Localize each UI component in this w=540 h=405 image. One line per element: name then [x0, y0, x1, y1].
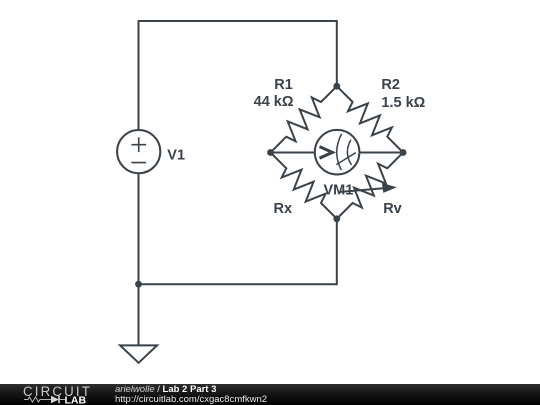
resistor R1 [271, 86, 337, 152]
svg-text:VM1: VM1 [324, 182, 354, 198]
wire: bridge horizontal left node to right node [271, 152, 404, 154]
svg-text:LAB: LAB [65, 395, 87, 405]
svg-text:Rv: Rv [383, 201, 402, 217]
node: bridge right junction [400, 149, 407, 156]
svg-text:Rx: Rx [274, 201, 293, 217]
node: ground junction [135, 281, 142, 288]
wire: bottom horizontal [139, 283, 337, 285]
node: bridge top junction [333, 83, 340, 90]
resistor R2 [337, 86, 403, 152]
voltmeter U1 (VM1) [315, 130, 360, 175]
node: bridge left junction [267, 149, 274, 156]
footer bar [0, 384, 540, 405]
svg-text:1.5 kΩ: 1.5 kΩ [381, 95, 425, 111]
wire: V1 bottom to ground node [138, 173, 140, 284]
resistor Rx [271, 153, 337, 219]
wire: down to bridge top node [336, 21, 338, 86]
footer title text [115, 385, 216, 395]
svg-text:R1: R1 [274, 77, 293, 93]
ground [120, 345, 157, 362]
wire: V1 top to top-left corner [138, 21, 140, 130]
node: bridge bottom junction [333, 215, 340, 222]
wire: top horizontal [139, 20, 337, 22]
wire: up to bridge bottom node [336, 219, 338, 284]
voltage source V1 [117, 130, 160, 173]
wire: ground stem [138, 284, 140, 345]
svg-text:R2: R2 [381, 77, 400, 93]
svg-text:44 kΩ: 44 kΩ [254, 94, 294, 110]
CircuitLab logo [0, 384, 110, 405]
resistor Rv [337, 153, 403, 219]
footer url text [115, 395, 267, 405]
wiper arrow of Rv [340, 183, 397, 193]
svg-text:V1: V1 [167, 147, 185, 163]
